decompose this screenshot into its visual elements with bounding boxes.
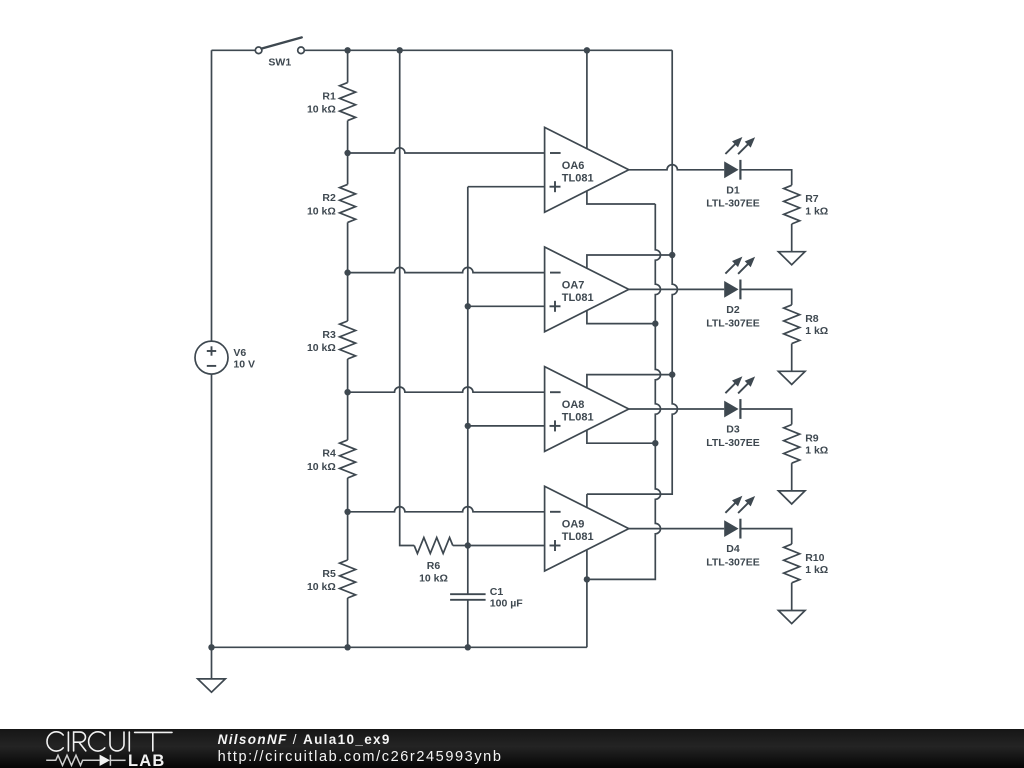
svg-text:10 kΩ: 10 kΩ bbox=[419, 573, 448, 585]
svg-text:TL081: TL081 bbox=[562, 292, 594, 304]
svg-text:NilsonNF / Aula10_ex9: NilsonNF / Aula10_ex9 bbox=[218, 732, 391, 747]
ground symbol left bbox=[198, 679, 226, 692]
svg-text:C1: C1 bbox=[490, 586, 504, 598]
svg-text:10 kΩ: 10 kΩ bbox=[307, 581, 336, 593]
LED D2 bbox=[706, 257, 759, 330]
svg-text:R10: R10 bbox=[805, 552, 824, 564]
wire OA6 V+ pin bbox=[586, 50, 588, 148]
wire tap3 to OA8 -in bbox=[348, 387, 545, 392]
node OA9 V- / V- chain bbox=[584, 576, 590, 582]
ground R9 bbox=[778, 491, 805, 504]
wire bottom rail bbox=[212, 646, 587, 648]
resistor R9 bbox=[784, 425, 829, 491]
resistor R2 bbox=[307, 153, 356, 273]
svg-text:10 kΩ: 10 kΩ bbox=[307, 104, 336, 116]
node V- chain / OA8 bbox=[652, 440, 658, 446]
svg-text:LTL-307EE: LTL-307EE bbox=[706, 437, 759, 449]
svg-text:R8: R8 bbox=[805, 313, 819, 325]
footer bar bbox=[0, 729, 1024, 768]
logo LAB text bbox=[128, 752, 166, 768]
node V- chain / OA7 bbox=[652, 320, 658, 326]
ground R10 bbox=[778, 611, 805, 624]
svg-text:R2: R2 bbox=[322, 192, 336, 204]
wire left rail upper bbox=[211, 50, 213, 341]
svg-text:LAB: LAB bbox=[128, 752, 166, 768]
svg-text:1 kΩ: 1 kΩ bbox=[805, 325, 828, 337]
svg-text:OA9: OA9 bbox=[562, 519, 585, 531]
svg-text:OA8: OA8 bbox=[562, 399, 585, 411]
svg-text:TL081: TL081 bbox=[562, 412, 594, 424]
node ladder tap 4 bbox=[344, 509, 350, 515]
wire ground stub left bbox=[211, 647, 213, 679]
ground R7 bbox=[778, 252, 805, 265]
LED D4 bbox=[706, 496, 759, 569]
node +chain / R6 / C1 bbox=[465, 542, 471, 548]
wire top rail left segment bbox=[212, 49, 256, 51]
resistor R6 bbox=[414, 538, 468, 585]
footer url line bbox=[218, 749, 503, 765]
wire top rail to V+ drop corner bbox=[304, 49, 672, 51]
ground R8 bbox=[778, 371, 805, 384]
wire tap2 to OA7 -in bbox=[348, 267, 545, 272]
node left rail / bottom wire bbox=[208, 644, 214, 650]
wire OA6 V- pin bbox=[587, 191, 655, 204]
node +chain / OA8 bbox=[465, 423, 471, 429]
svg-text:10 kΩ: 10 kΩ bbox=[307, 342, 336, 354]
wire OA9 V+ pin bbox=[586, 494, 588, 507]
op-amp OA6 bbox=[545, 127, 629, 212]
wire V- chain column bbox=[587, 204, 661, 579]
wire +input chain bbox=[467, 187, 469, 546]
svg-text:R9: R9 bbox=[805, 432, 819, 444]
resistor R8 bbox=[784, 305, 829, 371]
svg-text:R1: R1 bbox=[322, 90, 336, 102]
wire OA7 V- pin bbox=[587, 311, 655, 324]
voltage source V6 bbox=[195, 341, 255, 374]
svg-text:100 µF: 100 µF bbox=[490, 598, 523, 610]
svg-text:D3: D3 bbox=[726, 424, 740, 436]
wire OA8 +in bbox=[468, 425, 545, 427]
LED D1 bbox=[706, 137, 759, 210]
svg-text:1 kΩ: 1 kΩ bbox=[805, 564, 828, 576]
svg-text:R7: R7 bbox=[805, 193, 819, 205]
svg-text:10 V: 10 V bbox=[233, 359, 255, 371]
resistor R3 bbox=[307, 273, 356, 393]
wire OA8 V- pin bbox=[587, 430, 655, 443]
wire OA6 output bbox=[629, 165, 724, 170]
svg-text:LTL-307EE: LTL-307EE bbox=[706, 198, 759, 210]
svg-text:TL081: TL081 bbox=[562, 531, 594, 543]
node ladder tap 2 bbox=[344, 269, 350, 275]
op-amp OA9 bbox=[545, 486, 629, 571]
svg-text:10 kΩ: 10 kΩ bbox=[307, 461, 336, 473]
capacitor C1 bbox=[450, 546, 523, 648]
svg-text:http://circuitlab.com/c26r2459: http://circuitlab.com/c26r245993ynb bbox=[218, 749, 503, 765]
svg-text:R5: R5 bbox=[322, 568, 336, 580]
logo CIRCUIT lettering bbox=[47, 732, 172, 751]
svg-text:LTL-307EE: LTL-307EE bbox=[706, 557, 759, 569]
resistor R7 bbox=[784, 185, 829, 251]
logo diode triangle bbox=[100, 755, 110, 766]
resistor R5 bbox=[307, 512, 356, 648]
svg-text:D2: D2 bbox=[726, 304, 740, 316]
node V+ drop / OA7 bbox=[669, 252, 675, 258]
switch SW1 bbox=[255, 37, 304, 68]
resistor R10 bbox=[784, 544, 829, 610]
wire D4 cathode to R10 bbox=[740, 529, 791, 545]
svg-text:D4: D4 bbox=[726, 543, 740, 555]
svg-text:V6: V6 bbox=[233, 347, 246, 359]
wire OA8 V+ pin bbox=[587, 375, 672, 388]
wire OA9 output bbox=[629, 528, 724, 530]
node bottom / R5 bbox=[344, 644, 350, 650]
wire D1 cathode to R7 bbox=[740, 170, 791, 186]
op-amp OA8 bbox=[545, 367, 629, 452]
wire tap1 to OA6 -in bbox=[348, 148, 545, 153]
wire V+ drop column bbox=[587, 50, 677, 494]
wire left rail lower bbox=[211, 374, 213, 647]
LED D3 bbox=[706, 376, 759, 449]
node top-rail / R6 column bbox=[397, 47, 403, 53]
svg-text:LTL-307EE: LTL-307EE bbox=[706, 317, 759, 329]
node top-rail / OA6 V+ bbox=[584, 47, 590, 53]
wire D3 cathode to R9 bbox=[740, 409, 791, 425]
svg-text:OA7: OA7 bbox=[562, 280, 585, 292]
svg-text:D1: D1 bbox=[726, 184, 740, 196]
svg-text:R6: R6 bbox=[427, 560, 441, 572]
svg-text:1 kΩ: 1 kΩ bbox=[805, 205, 828, 217]
node +chain / OA7 bbox=[465, 303, 471, 309]
wire OA7 V+ pin bbox=[587, 255, 672, 268]
logo resistor-diode glyph bbox=[46, 755, 125, 766]
svg-text:R3: R3 bbox=[322, 329, 336, 341]
op-amp OA7 bbox=[545, 247, 629, 332]
resistor R4 bbox=[307, 392, 356, 512]
svg-text:1 kΩ: 1 kΩ bbox=[805, 445, 828, 457]
wire OA9 +in bbox=[468, 545, 545, 547]
wire tap4 to OA9 -in bbox=[348, 507, 545, 512]
wire V+ column to R6 bbox=[400, 50, 415, 545]
footer author line bbox=[218, 732, 391, 747]
svg-text:OA6: OA6 bbox=[562, 160, 585, 172]
svg-text:SW1: SW1 bbox=[268, 56, 291, 68]
node ladder tap 3 bbox=[344, 389, 350, 395]
wire D2 cathode to R8 bbox=[740, 289, 791, 305]
wire OA8 output bbox=[629, 408, 724, 410]
svg-text:10 kΩ: 10 kΩ bbox=[307, 205, 336, 217]
node top-rail / R1 bbox=[344, 47, 350, 53]
resistor R1 bbox=[307, 50, 356, 153]
node V+ drop / OA8 bbox=[669, 371, 675, 377]
svg-text:R4: R4 bbox=[322, 448, 336, 460]
svg-text:TL081: TL081 bbox=[562, 172, 594, 184]
wire OA9 V- pin bbox=[586, 550, 588, 647]
wire OA7 output bbox=[629, 288, 724, 290]
node ladder tap 1 bbox=[344, 150, 350, 156]
wire OA7 +in bbox=[468, 305, 545, 307]
node bottom / C1 bbox=[465, 644, 471, 650]
wire OA6 +in bbox=[468, 186, 545, 188]
